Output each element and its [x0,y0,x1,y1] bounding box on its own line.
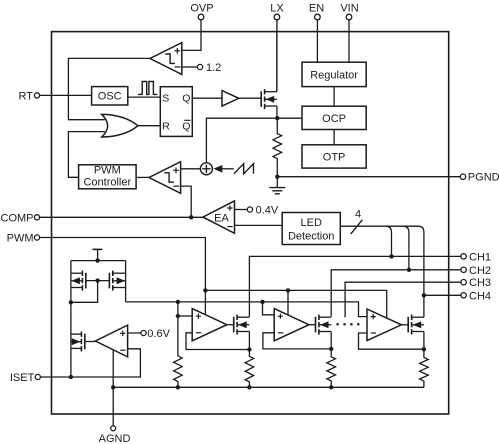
pin COMP [1,212,40,224]
svg-text:OTP: OTP [323,152,346,164]
wire mirror top rail [71,260,126,262]
wire COMP to EA output [40,216,203,218]
svg-text:Detection: Detection [288,230,334,242]
pin PGND [460,172,499,184]
node cell3 sense junction [422,347,426,351]
wire CH3 line [345,282,460,317]
node 0.4V reference [247,205,279,217]
op-amp U9 channel2 [274,309,309,341]
node 1.2V reference [197,62,221,74]
wire U2 minus to COMP [181,186,192,217]
transistor Q4 ISET NMOS [71,332,85,352]
pin RT [19,90,40,102]
block OSC [92,87,128,105]
node CH4 bus junction [422,293,426,297]
svg-text:EA: EA [214,213,229,225]
wire PWM drop to U9 enable [287,290,289,315]
pin ISET [10,372,41,384]
wire U10 minus feedback [359,333,424,349]
svg-text:Q: Q [182,93,190,105]
wire Q1 source to sense node [276,106,278,118]
svg-text:PWM: PWM [94,165,121,177]
svg-text:PGND: PGND [468,172,499,184]
node PWM tee [203,288,207,292]
svg-text:ISET: ISET [10,372,35,384]
block Regulator [302,62,366,86]
pin AGND [99,426,131,444]
wire PWM net [40,238,387,319]
wire EA minus to LED detection [235,224,283,226]
wire U7 minus feedback [128,348,141,350]
transistor Q7 channel4 [408,315,424,335]
svg-text:CH4: CH4 [469,290,491,302]
wire OCP to OTP [333,130,335,145]
wire U8 minus feedback [186,333,249,350]
wire U10 output to Q7 gate [401,324,408,326]
wire Q3 outer rail [125,261,127,302]
op-amp U1 OVP comparator [150,43,182,75]
svg-text:EN: EN [309,3,324,15]
node rail cell2 tap [260,300,264,304]
svg-text:S: S [162,93,169,105]
svg-text:LX: LX [270,3,284,15]
wire OVP to comparator [182,20,201,50]
transistor Q5 channel1 [234,315,250,335]
wire Q1 drain [276,30,278,92]
svg-text:Regulator: Regulator [310,69,358,81]
wire PGND line [277,176,460,178]
pin LX [270,3,284,20]
pin CH2 [461,265,491,277]
resistor R1 current sense [273,118,282,177]
node COMP junction [189,215,193,219]
svg-text:COMP: COMP [1,212,34,224]
wire U9 output to Q6 gate [309,324,316,326]
label bus width 4 [355,208,361,220]
wire U2 output to PWM controller [136,176,149,178]
pin PWM [7,233,40,245]
summing junction node [200,163,212,175]
node PGND junction [275,175,279,179]
wire Q6 source down [330,332,332,349]
wire Q2 drain to Q4 drain [70,302,72,377]
node R2 bottom junction [176,385,180,389]
wire EN to regulator [316,20,318,62]
wire LX to switch drain [276,20,278,92]
bus branch to CH1 [386,226,394,258]
pin CH4 [461,290,491,302]
wire sense node to OCP [277,117,302,119]
wire mirror gates tie [71,281,110,303]
wire Q2 source-drain rail [70,261,72,303]
wire U9 minus feedback [263,333,331,349]
wire CH1 line [249,256,460,316]
pin OVP [190,3,213,20]
node cell2 sense junction [329,347,333,351]
wire RT to OSC [40,94,92,96]
pin CH1 [461,251,491,263]
node rail cell1 junction [176,300,180,304]
op-amp U8 channel1 [192,309,227,341]
svg-text:CH1: CH1 [469,251,491,263]
node ISET junction [69,375,73,379]
wire summing to PWM comparator plus [181,168,201,170]
svg-text:0.4V: 0.4V [256,205,279,217]
ellipsis continuation dots [336,323,359,326]
wire EA plus to 0.4V ref [235,209,247,211]
wire ISET net [41,349,140,377]
svg-text:OVP: OVP [190,3,213,15]
svg-text:CH3: CH3 [469,277,491,289]
IC boundary box [52,32,449,414]
svg-text:Controller: Controller [83,177,131,189]
wire OR lower input from PWM controller [68,132,104,178]
block PWM Controller [79,165,137,189]
block OCP [302,106,366,129]
block OTP [302,145,366,168]
node AGND rail junction [111,385,115,389]
wire AGND stem [112,350,114,426]
op-amp U10 channel4 [367,309,401,341]
bus width slash [351,220,363,234]
node sense junction [275,116,279,120]
sawtooth ramp symbol [234,164,254,174]
bus branch to CH2 [403,226,411,272]
resistor R3 channel1 sense [245,350,254,388]
node diode-connect junction [69,300,73,304]
svg-text:LED: LED [300,217,321,229]
buffer U4 gate driver [222,91,239,107]
node 0.6V reference [141,328,171,340]
wire Q4 gate from amp [85,341,96,343]
wire buffer to gate [239,97,261,99]
resistor R2 reference [174,302,183,387]
block LED Detection [282,213,340,245]
svg-text:R: R [162,121,170,133]
wire OSC to latch S [128,96,161,98]
slope comp arrow into summing [213,165,234,173]
wire U7 plus to 0.6V ref [128,332,141,334]
wire OR output to latch R [138,125,161,127]
wire CH4 line [424,294,461,296]
pin EN [309,3,324,20]
node R4 bottom junction [329,385,333,389]
wire CH2 line [331,270,460,317]
svg-text:VIN: VIN [340,3,358,15]
transistor Q6 channel2 [316,315,332,335]
wire cell1 plus input [178,315,192,317]
node supply junction [95,258,99,262]
wire Q7 source down [423,332,425,350]
svg-text:Q: Q [182,121,190,133]
svg-text:OSC: OSC [98,91,122,103]
wire AGND rail [113,386,424,388]
block U6 SR latch [160,87,192,137]
wire mirror output rail [126,302,367,317]
node cell1 plus tap [176,314,180,318]
op-amp U7 0.6V amplifier [95,325,127,357]
transistor Q3 mirror right PMOS [109,271,125,291]
svg-text:PWM: PWM [7,233,34,245]
op-amp U2 PWM comparator [149,162,181,194]
ground power ground symbol [269,177,285,194]
svg-text:4: 4 [355,208,361,220]
node gate tie junction [95,278,99,282]
wire regulator to OCP [333,87,335,107]
svg-text:CH2: CH2 [469,265,491,277]
pin CH3 [461,277,491,289]
gate U5 OR [102,114,138,137]
transistor Q2 mirror left PMOS [71,271,86,291]
op-amp U3 error amplifier EA [203,201,235,233]
wire VIN to regulator [348,20,350,62]
wire cell2 plus tap [263,302,275,315]
wire latch Q to buffer [192,97,222,99]
node PWM drop junction [286,288,290,292]
transistor Q1 power switch [261,89,277,109]
wire U8 output to Q5 gate [227,324,234,326]
resistor R5 channel4 sense [420,349,429,387]
svg-text:AGND: AGND [99,433,131,444]
wire Q7 drain to CH4 [423,295,425,317]
svg-text:RT: RT [19,90,34,102]
svg-text:0.6V: 0.6V [147,328,170,340]
wire U1 minus to 1.2 ref [182,66,198,68]
supply rail symbol [93,249,103,260]
pin VIN [340,3,358,20]
wire Q5 source down [248,332,250,350]
node R3 bottom junction [247,385,251,389]
node cell1 sense junction [247,347,251,351]
wire U1 output loop [68,58,150,119]
svg-text:OCP: OCP [322,113,346,125]
wire sense node to summing [206,118,277,163]
resistor R4 channel2 sense [327,349,336,387]
clock pulse symbol [138,82,157,95]
bus LED detection output [340,226,424,295]
svg-text:1.2: 1.2 [206,62,221,74]
